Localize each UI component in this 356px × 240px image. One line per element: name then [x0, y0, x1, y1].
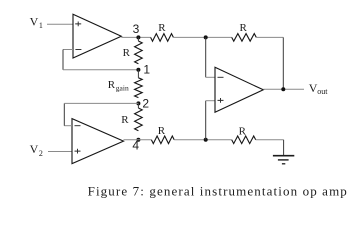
node Vout junction	[281, 87, 285, 91]
wire node2 to node4 stubs	[137, 103, 139, 108]
wire A3 output	[263, 88, 304, 90]
ground	[273, 156, 294, 164]
wire feedback vertical right	[282, 37, 284, 89]
svg-text:Figure 7: general instrumentat: Figure 7: general instrumentation op amp	[88, 184, 348, 199]
resistor R top-left horizontal	[151, 22, 174, 41]
node 4	[132, 138, 140, 153]
resistor R bottom-left horizontal	[151, 125, 174, 143]
wire A3 inverting input	[206, 37, 215, 77]
svg-text:1: 1	[143, 63, 150, 77]
svg-text:1: 1	[39, 21, 43, 30]
junction node bottom	[204, 138, 208, 142]
node 2	[136, 96, 149, 110]
wire A3 non-inverting input	[206, 101, 215, 140]
wire bottom right to ground	[256, 140, 284, 156]
resistor R bottom-right horizontal	[232, 125, 256, 143]
wire V2 input	[48, 151, 72, 153]
wire A1 output to node 3	[121, 36, 150, 38]
svg-text:4: 4	[132, 139, 139, 153]
wire top right	[256, 36, 283, 38]
junction node top	[204, 35, 208, 39]
svg-text:R: R	[123, 47, 131, 59]
svg-text:out: out	[317, 87, 328, 96]
wire A1 inverting feedback	[63, 50, 138, 70]
resistor R top-right horizontal	[232, 22, 257, 41]
resistor Rgain vertical node1-node2	[108, 78, 142, 98]
wire node1 to node2 stubs	[137, 70, 139, 78]
op-amp A3	[215, 67, 263, 112]
op-amp A2	[72, 119, 124, 164]
op-amp A1	[73, 14, 121, 58]
svg-text:gain: gain	[116, 84, 129, 93]
wire V1 input	[47, 23, 73, 25]
node V2 label	[30, 142, 43, 158]
svg-text:R: R	[240, 22, 248, 34]
node 3	[133, 22, 141, 39]
svg-text:R: R	[108, 79, 116, 91]
node Vout label	[309, 81, 328, 96]
svg-text:V: V	[30, 142, 39, 156]
svg-text:V: V	[30, 14, 39, 28]
node V1 label	[30, 14, 43, 30]
svg-text:2: 2	[39, 149, 43, 158]
svg-text:2: 2	[142, 96, 149, 110]
resistor R vertical node2-node4	[121, 108, 142, 131]
svg-text:R: R	[158, 22, 166, 34]
svg-text:R: R	[158, 125, 166, 137]
svg-text:3: 3	[133, 22, 140, 36]
wire bottom middle	[174, 139, 232, 141]
wire node3 to node1 stubs	[137, 37, 139, 41]
svg-text:R: R	[121, 114, 129, 126]
node 1	[136, 63, 150, 77]
wire top middle	[173, 36, 231, 38]
resistor R vertical node3-node1	[123, 41, 143, 64]
svg-text:R: R	[239, 125, 247, 137]
wire A2 output to node 4	[124, 139, 152, 141]
wire A2 inverting feedback	[64, 103, 138, 125]
